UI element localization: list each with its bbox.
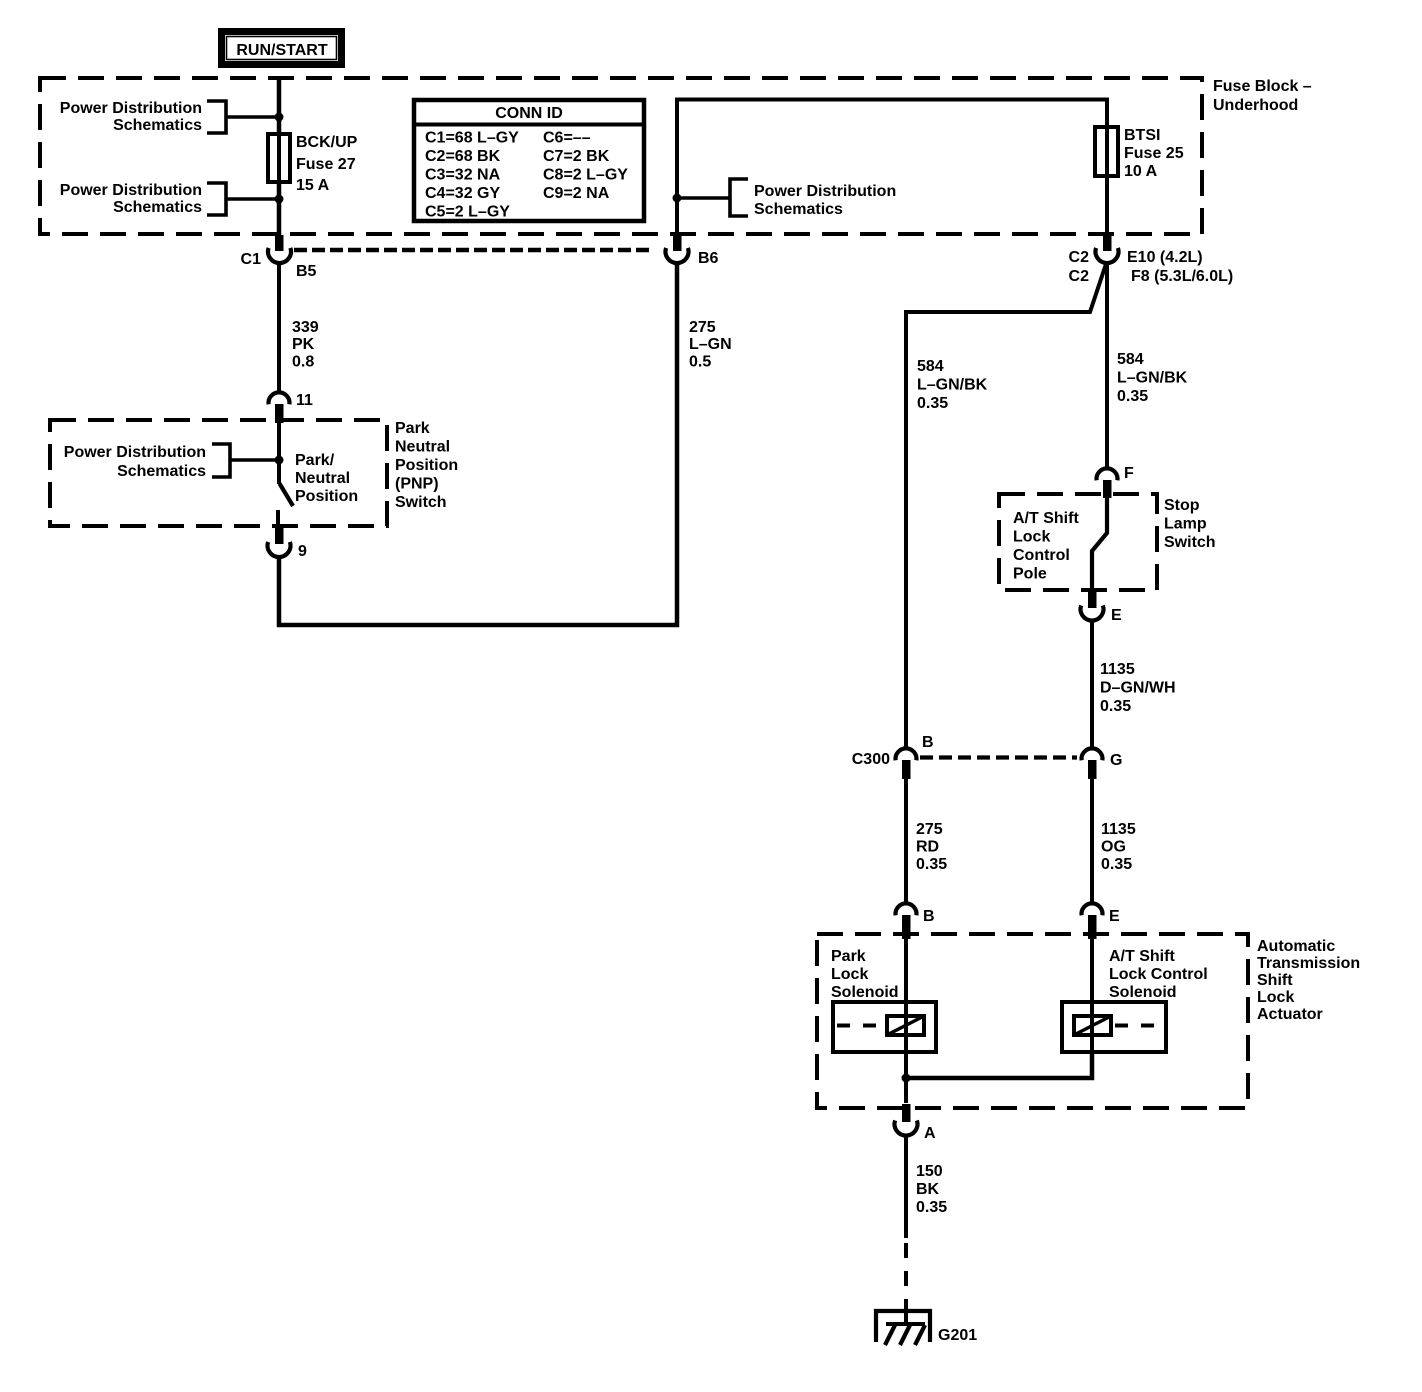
svg-text:D–GN/WH: D–GN/WH — [1100, 680, 1176, 697]
fuse block underhood (dashed outline) — [40, 78, 1202, 234]
label E (actuator) — [1109, 908, 1120, 925]
svg-text:B5: B5 — [296, 263, 317, 280]
connector C300 pin G socket — [1082, 748, 1103, 760]
reference Power Distribution Schematics (PNP) — [64, 444, 206, 480]
svg-text:C300: C300 — [852, 751, 890, 768]
svg-text:Lock: Lock — [1257, 989, 1294, 1006]
wire solenoid B feed — [904, 939, 908, 1103]
fuse F27 BCK/UP 15A — [268, 134, 290, 182]
svg-text:Lock: Lock — [831, 966, 868, 983]
label E (stop lamp) — [1111, 607, 1122, 624]
svg-text:C2: C2 — [1069, 249, 1090, 266]
label Park/ Neutral Position — [295, 452, 358, 505]
wire dashed run to ground G201 — [904, 1243, 908, 1311]
svg-text:11: 11 — [296, 392, 313, 409]
connector pin 11 terminal stub — [275, 404, 284, 423]
connector A terminal stub — [902, 1104, 911, 1122]
svg-text:Lamp: Lamp — [1164, 516, 1207, 533]
svg-text:RUN/START: RUN/START — [236, 42, 327, 59]
switch lower contact wire — [276, 510, 280, 528]
svg-text:(PNP): (PNP) — [395, 476, 439, 493]
svg-text:C9=2 NA: C9=2 NA — [543, 185, 610, 202]
svg-text:1135: 1135 — [1101, 821, 1136, 838]
svg-text:CONN ID: CONN ID — [495, 105, 563, 122]
svg-text:Power Distribution: Power Distribution — [60, 100, 202, 117]
connector C300 pin B socket — [895, 748, 916, 760]
label G201 — [938, 1327, 977, 1344]
CONN ID entries column 2 — [543, 130, 628, 203]
connector C2 socket — [1096, 248, 1119, 263]
connector pin 9 socket — [268, 542, 291, 557]
wire RUN/START feed to fuse 27 and connector C1 — [277, 78, 282, 237]
connector E socket (actuator) — [1082, 903, 1103, 915]
wire reference tap PNP — [230, 458, 279, 462]
wire solenoid E feed — [1090, 939, 1094, 1052]
svg-text:Actuator: Actuator — [1257, 1006, 1323, 1023]
svg-text:584: 584 — [1117, 351, 1144, 368]
connector C1 pin B5 socket — [268, 248, 291, 263]
connector C1 pin B5 terminal stub — [275, 235, 284, 251]
svg-text:0.35: 0.35 — [917, 395, 948, 412]
connector pin 11 socket — [269, 392, 290, 404]
connector F socket — [1097, 468, 1118, 480]
label G (C300) — [1110, 752, 1122, 769]
svg-text:L–GN: L–GN — [689, 336, 732, 353]
connector E terminal stub (actuator) — [1088, 915, 1097, 939]
svg-text:C4=32 GY: C4=32 GY — [425, 185, 500, 202]
wire 1135 D-GN/WH 0.35 (E to C300 G) — [1090, 621, 1094, 750]
dashed connector line C1 to B6 — [294, 248, 654, 253]
reference Power Distribution Schematics (upper) — [60, 100, 202, 134]
svg-text:Shift: Shift — [1257, 972, 1293, 989]
PNP switch dashed box — [50, 420, 387, 526]
svg-text:0.35: 0.35 — [916, 1199, 947, 1216]
svg-text:G: G — [1110, 752, 1122, 769]
svg-text:B6: B6 — [698, 250, 719, 267]
junction dot solenoid common — [902, 1074, 911, 1083]
wire fuse 25 to connector C2 — [1105, 176, 1109, 237]
svg-text:B: B — [922, 734, 934, 751]
svg-text:E: E — [1111, 607, 1122, 624]
svg-text:0.35: 0.35 — [1100, 698, 1131, 715]
label F — [1124, 465, 1134, 482]
svg-text:Underhood: Underhood — [1213, 97, 1298, 114]
label 584 L-GN/BK 0.35 (right) — [1117, 351, 1188, 405]
svg-text:150: 150 — [916, 1163, 943, 1180]
connector F terminal stub — [1103, 480, 1112, 498]
svg-text:C1: C1 — [241, 251, 262, 268]
A/T shift lock control solenoid L2 coil — [1074, 1016, 1111, 1035]
svg-text:Fuse 25: Fuse 25 — [1124, 145, 1184, 162]
junction dot lower tap — [275, 195, 284, 204]
ground G201 symbol — [876, 1311, 930, 1345]
svg-text:Lock Control: Lock Control — [1109, 966, 1208, 983]
label C300 — [852, 751, 890, 768]
wire PNP pin 11 to switch pole — [277, 423, 281, 484]
svg-text:L–GN/BK: L–GN/BK — [1117, 370, 1188, 387]
svg-text:Automatic: Automatic — [1257, 938, 1335, 955]
svg-text:Power Distribution: Power Distribution — [60, 182, 202, 199]
connector C300 pin G terminal stub — [1088, 760, 1097, 779]
connector A socket — [895, 1120, 918, 1135]
wire 584 L-GN/BK 0.35 (C2 to stop lamp switch F) — [1105, 263, 1109, 469]
svg-text:Park: Park — [831, 948, 866, 965]
svg-text:Power Distribution: Power Distribution — [754, 183, 896, 200]
svg-text:0.35: 0.35 — [1101, 856, 1132, 873]
svg-text:BCK/UP: BCK/UP — [296, 134, 358, 151]
bracket symbol (lower reference) — [207, 183, 226, 215]
svg-text:BK: BK — [916, 1181, 940, 1198]
label A/T Shift Lock Control Pole — [1013, 510, 1079, 583]
wire pin 9 down right and up to B6 — [279, 263, 677, 625]
svg-text:A/T Shift: A/T Shift — [1109, 948, 1175, 965]
label 275 RD 0.35 — [916, 821, 947, 873]
connector B6 socket — [666, 248, 689, 263]
junction dot upper tap — [275, 113, 284, 122]
wire 275 RD 0.35 (C300 B to solenoid B) — [904, 779, 908, 903]
svg-text:PK: PK — [292, 336, 315, 353]
svg-text:Park: Park — [395, 420, 430, 437]
label 150 BK 0.35 — [916, 1163, 947, 1216]
label C2 C2 — [1069, 249, 1090, 285]
svg-text:C2: C2 — [1069, 268, 1090, 285]
label 339 PK 0.8 — [292, 319, 319, 371]
wire 1135 OG 0.35 (C300 G to solenoid E) — [1090, 779, 1094, 903]
svg-text:275: 275 — [916, 821, 943, 838]
svg-text:F8 (5.3L/6.0L): F8 (5.3L/6.0L) — [1131, 268, 1233, 285]
bracket symbol (fuse block right reference) — [730, 179, 748, 216]
svg-text:A/T Shift: A/T Shift — [1013, 510, 1079, 527]
svg-text:C5=2 L–GY: C5=2 L–GY — [425, 204, 510, 221]
junction dot switch pole — [275, 456, 284, 465]
label 9 — [298, 543, 307, 560]
label 584 L-GN/BK 0.35 (left) — [917, 358, 988, 412]
label Fuse Block - Underhood — [1213, 78, 1312, 114]
svg-text:Schematics: Schematics — [754, 201, 843, 218]
svg-text:Schematics: Schematics — [117, 463, 206, 480]
reference Power Distribution Schematics (fuse block right) — [754, 183, 896, 218]
svg-text:339: 339 — [292, 319, 319, 336]
wire 150 BK 0.35 (A to splice) — [904, 1136, 908, 1238]
svg-text:C2=68 BK: C2=68 BK — [425, 148, 501, 165]
connector B6 terminal stub — [673, 235, 682, 251]
svg-text:0.5: 0.5 — [689, 354, 711, 371]
svg-text:C3=32 NA: C3=32 NA — [425, 167, 501, 184]
svg-text:Stop: Stop — [1164, 497, 1200, 514]
A/T shift lock solenoid armature dashed link — [1115, 1024, 1162, 1028]
svg-text:BTSI: BTSI — [1124, 127, 1160, 144]
svg-text:10 A: 10 A — [1124, 163, 1158, 180]
label A/T Shift Lock Control Solenoid — [1109, 948, 1208, 1001]
wire 339 PK 0.8 (C1 B5 to PNP pin 11) — [277, 263, 281, 392]
label C1 — [241, 251, 262, 268]
label BCK/UP Fuse 27 15 A — [296, 134, 358, 194]
svg-text:Position: Position — [395, 457, 458, 474]
svg-text:Transmission: Transmission — [1257, 955, 1360, 972]
connector C2 terminal stub — [1103, 235, 1112, 251]
label Park Neutral Position (PNP) Switch — [395, 420, 458, 511]
svg-text:E: E — [1109, 908, 1120, 925]
svg-text:0.35: 0.35 — [916, 856, 947, 873]
label Park Lock Solenoid — [831, 948, 899, 1001]
wire reference tap fuse block right — [677, 196, 730, 200]
stop lamp switch dashed box — [999, 494, 1157, 590]
park lock solenoid L1 coil — [887, 1016, 924, 1035]
label A — [924, 1125, 936, 1142]
svg-text:Neutral: Neutral — [395, 439, 450, 456]
svg-text:Solenoid: Solenoid — [1109, 984, 1177, 1001]
svg-text:275: 275 — [689, 319, 716, 336]
wire solenoid common return — [906, 1052, 1092, 1078]
CONN ID entries column 1 — [425, 130, 519, 221]
fuse F25 BTSI 10A — [1095, 127, 1118, 176]
svg-text:Switch: Switch — [395, 494, 447, 511]
svg-text:OG: OG — [1101, 839, 1126, 856]
svg-text:Fuse 27: Fuse 27 — [296, 156, 356, 173]
label B (C300) — [922, 734, 934, 751]
bracket symbol (PNP reference) — [212, 444, 230, 477]
label B5 — [296, 263, 317, 280]
label F8 (5.3L/6.0L) — [1131, 268, 1233, 285]
svg-text:Lock: Lock — [1013, 529, 1050, 546]
label B (actuator) — [923, 908, 935, 925]
A/T shift lock control solenoid L2 body — [1062, 1002, 1166, 1052]
svg-text:F: F — [1124, 465, 1134, 482]
svg-text:0.35: 0.35 — [1117, 388, 1148, 405]
label E10 (4.2L) — [1127, 249, 1203, 266]
svg-text:Solenoid: Solenoid — [831, 984, 899, 1001]
svg-text:G201: G201 — [938, 1327, 977, 1344]
connector B socket (actuator) — [895, 903, 916, 915]
label 1135 D-GN/WH 0.35 — [1100, 661, 1176, 715]
bracket symbol (upper reference) — [207, 101, 226, 133]
park lock solenoid armature dashed link — [837, 1024, 883, 1028]
svg-text:C8=2 L–GY: C8=2 L–GY — [543, 167, 628, 184]
svg-text:Control: Control — [1013, 547, 1070, 564]
wire branch C2 diagonal to left 584 run — [906, 264, 1106, 750]
svg-text:C6=––: C6=–– — [543, 130, 591, 147]
connector B terminal stub (actuator) — [902, 915, 911, 939]
connector C300 pin B terminal stub — [902, 760, 911, 779]
svg-text:Switch: Switch — [1164, 534, 1216, 551]
connector E socket (stop lamp) — [1081, 605, 1104, 620]
connector pin 9 terminal stub — [275, 527, 284, 544]
label BTSI Fuse 25 10 A — [1124, 127, 1184, 180]
svg-text:C7=2 BK: C7=2 BK — [543, 148, 610, 165]
switch A/T shift lock control pole blade — [1092, 497, 1107, 592]
label Stop Lamp Switch — [1164, 497, 1216, 551]
label 11 — [296, 392, 313, 409]
svg-text:Pole: Pole — [1013, 566, 1047, 583]
label 1135 OG 0.35 — [1101, 821, 1136, 873]
junction dot fuse block right tap — [673, 194, 682, 203]
reference Power Distribution Schematics (lower) — [60, 182, 202, 216]
svg-text:A: A — [924, 1125, 936, 1142]
label 275 L-GN 0.5 — [689, 319, 732, 371]
label B6 — [698, 250, 719, 267]
park lock solenoid L1 body — [833, 1002, 936, 1052]
label Automatic Transmission Shift Lock Actuator — [1257, 938, 1360, 1023]
svg-text:RD: RD — [916, 839, 939, 856]
svg-text:E10 (4.2L): E10 (4.2L) — [1127, 249, 1203, 266]
svg-text:Schematics: Schematics — [113, 117, 202, 134]
svg-text:9: 9 — [298, 543, 307, 560]
svg-text:Power Distribution: Power Distribution — [64, 444, 206, 461]
dashed connector line C300 B to G — [920, 755, 1077, 759]
wire reference tap lower — [226, 197, 279, 201]
svg-text:Fuse Block –: Fuse Block – — [1213, 78, 1312, 95]
svg-text:0.8: 0.8 — [292, 354, 314, 371]
automatic transmission shift lock actuator dashed box — [817, 934, 1248, 1108]
wire B6 up across to fuse 25 — [677, 100, 1107, 237]
svg-text:Neutral: Neutral — [295, 470, 350, 487]
CONN ID table — [414, 100, 644, 221]
svg-text:584: 584 — [917, 358, 944, 375]
wire reference tap upper — [226, 115, 279, 119]
connector E terminal stub (stop lamp) — [1088, 591, 1097, 608]
svg-text:C1=68 L–GY: C1=68 L–GY — [425, 130, 519, 147]
svg-text:1135: 1135 — [1100, 661, 1135, 678]
svg-text:Position: Position — [295, 488, 358, 505]
svg-text:L–GN/BK: L–GN/BK — [917, 377, 988, 394]
switch blade Park/Neutral Position — [280, 484, 294, 507]
svg-text:Schematics: Schematics — [113, 199, 202, 216]
svg-text:15 A: 15 A — [296, 177, 330, 194]
svg-text:B: B — [923, 908, 935, 925]
svg-text:Park/: Park/ — [295, 452, 335, 469]
power source RUN/START box — [218, 28, 345, 68]
